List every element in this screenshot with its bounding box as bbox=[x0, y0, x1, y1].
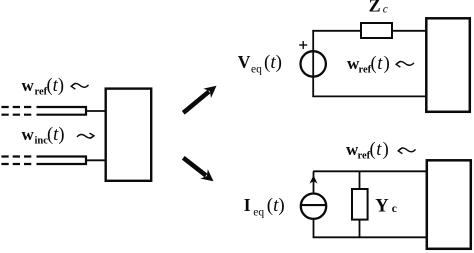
transmission line TL2 (lower) dashed continuation bbox=[1, 157, 33, 165]
svg-text:w: w bbox=[22, 76, 35, 95]
admittance Y_c box bbox=[352, 189, 368, 220]
wire TL1 centre conductor to network box bbox=[86, 110, 107, 112]
label I_eq(t) bbox=[244, 195, 285, 219]
wire: current source to bottom node bbox=[313, 219, 315, 237]
impedance Z_c box bbox=[361, 23, 392, 38]
wire: Y_c upper lead bbox=[359, 171, 361, 189]
svg-text:(t): (t) bbox=[267, 195, 285, 216]
svg-text:(t): (t) bbox=[370, 140, 389, 160]
transmission line TL2 (lower) solid section with end cap bbox=[37, 157, 87, 165]
wire: bottom of Thevenin loop bbox=[312, 95, 427, 97]
svg-text:(t): (t) bbox=[371, 54, 390, 74]
wire: Z_c to load box (top right) bbox=[392, 30, 427, 32]
svg-text:(t): (t) bbox=[47, 125, 64, 145]
svg-text:w: w bbox=[22, 125, 35, 144]
wire: top, voltage source to Z_c bbox=[312, 30, 362, 32]
svg-text:V: V bbox=[238, 52, 251, 72]
svg-text:I: I bbox=[244, 195, 251, 215]
svg-text:c: c bbox=[383, 4, 388, 16]
svg-text:eq: eq bbox=[253, 207, 264, 219]
current source I_eq circle bbox=[301, 194, 326, 219]
svg-text:(t): (t) bbox=[264, 52, 282, 73]
arrow to Thevenin equivalent (upper) bbox=[183, 86, 216, 113]
svg-text:eq: eq bbox=[251, 64, 262, 76]
wire: bottom of Norton loop bbox=[313, 236, 428, 238]
label w_ref(t) with left wave arrow (Thevenin circuit) bbox=[347, 54, 414, 76]
wire: current source to top node with current direction arrow bbox=[310, 171, 318, 193]
svg-text:Z: Z bbox=[369, 0, 381, 16]
network box (left multiport) bbox=[106, 89, 152, 181]
wire TL2 centre conductor to network box bbox=[86, 159, 107, 161]
wire through voltage source (vertical) bbox=[312, 31, 314, 97]
wire: top of Norton loop bbox=[313, 170, 427, 172]
voltage source V_eq circle bbox=[301, 51, 326, 76]
label Y_c bbox=[375, 197, 397, 217]
transmission line TL1 (upper) dashed continuation bbox=[1, 107, 33, 115]
transmission line TL1 (upper) solid section with end cap bbox=[37, 107, 87, 115]
load box (bottom right) bbox=[427, 160, 471, 249]
label V_eq(t) bbox=[238, 52, 282, 76]
plus sign of voltage source bbox=[299, 41, 307, 49]
svg-text:c: c bbox=[392, 203, 397, 215]
svg-text:Y: Y bbox=[375, 197, 389, 217]
label w_ref(t) with left wave arrow (Norton circuit) bbox=[346, 140, 416, 162]
svg-text:(t): (t) bbox=[47, 76, 64, 96]
arrow to Norton equivalent (lower) bbox=[183, 158, 213, 182]
label Z_c bbox=[369, 0, 388, 16]
label w_ref(t) with left wave arrow (left section) bbox=[22, 76, 89, 98]
current source horizontal bar bbox=[301, 204, 326, 206]
load box (top right) bbox=[426, 18, 470, 112]
label w_inc(t) with right wave arrow (left section) bbox=[22, 125, 95, 147]
wire: Y_c lower lead bbox=[359, 219, 361, 237]
